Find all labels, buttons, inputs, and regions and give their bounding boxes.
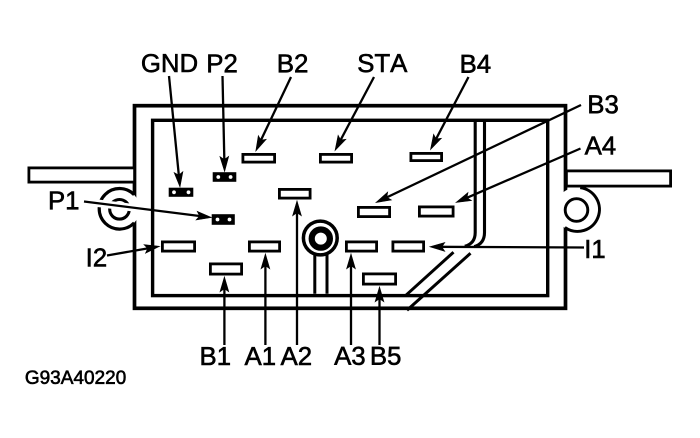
left grommet white body: [99, 189, 140, 230]
terminal A2: [279, 189, 310, 198]
leader arrow B3: [376, 105, 581, 203]
leader arrow P2: [220, 76, 229, 172]
connector inner housing: [153, 120, 548, 295]
leader arrow A3: [347, 254, 356, 345]
corner key diagonal 1: [406, 252, 454, 295]
terminal B4: [411, 153, 442, 160]
left grommet inner ring: [110, 200, 130, 220]
center grommet outer circle: [303, 221, 337, 255]
leader arrow B4: [431, 77, 469, 150]
connector outer housing: [135, 106, 566, 309]
label A1: [245, 347, 275, 365]
right mounting tab: [566, 171, 670, 186]
rib right: [474, 122, 484, 247]
terminal P2 (filled): [213, 173, 236, 182]
terminal A1: [249, 242, 279, 251]
label GND: [142, 54, 197, 72]
leader P1 casing: [84, 202, 146, 210]
terminal B2: [243, 154, 275, 162]
right grommet outer arc: [565, 188, 600, 232]
center grommet donut: [312, 230, 330, 248]
leader arrow A1: [261, 254, 270, 345]
leader arrow GND: [169, 76, 183, 187]
corner key diagonal 2: [407, 253, 471, 310]
terminal B3: [358, 207, 389, 216]
terminal I2: [162, 242, 194, 251]
center grommet stem: [315, 252, 327, 294]
leader arrow A2: [293, 201, 302, 345]
terminal B1: [210, 264, 241, 274]
label B3: [589, 95, 617, 113]
label G93A40220: [26, 371, 126, 385]
terminal A4: [419, 207, 453, 216]
label B2: [279, 54, 307, 72]
label P1: [50, 192, 78, 210]
leader arrow I2: [107, 245, 160, 256]
leader arrow STA: [335, 77, 374, 151]
leader arrow P1: [84, 202, 212, 221]
left mounting tab: [29, 168, 135, 182]
left grommet outer arc: [99, 189, 134, 230]
terminal STA: [320, 154, 351, 162]
label I2: [88, 248, 106, 266]
terminal A3: [346, 242, 376, 251]
label B5: [372, 347, 400, 365]
terminal GND (filled): [169, 188, 193, 197]
label A2: [281, 347, 311, 365]
label A4: [585, 137, 616, 155]
leader arrow B2: [256, 77, 291, 151]
rib left: [465, 122, 475, 246]
leader arrow B5: [375, 287, 384, 345]
label P2: [208, 54, 236, 72]
terminal P1 (filled): [212, 215, 235, 225]
label I1: [587, 240, 605, 258]
label B4: [462, 55, 491, 73]
label B1: [202, 347, 230, 365]
leader arrow A4: [456, 149, 581, 203]
leader arrow I1: [430, 243, 584, 252]
right grommet white body: [555, 187, 600, 232]
right grommet inner circle: [565, 199, 588, 222]
label A3: [334, 347, 364, 365]
terminal I1: [393, 242, 424, 251]
terminal B5: [363, 274, 395, 284]
label STA: [358, 54, 407, 72]
leader arrow B1: [220, 277, 229, 345]
